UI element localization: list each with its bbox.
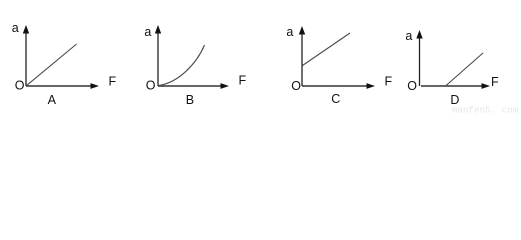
graph A: line through origin [27, 44, 77, 85]
graph D: y-axis [416, 30, 422, 86]
graph C: x-axis [302, 83, 375, 89]
svg-text:a: a [144, 25, 151, 39]
svg-text:a: a [286, 25, 293, 39]
svg-text:C: C [331, 92, 340, 106]
graph A: y-axis [23, 25, 29, 86]
svg-text:F: F [385, 75, 393, 89]
svg-text:O: O [15, 79, 25, 93]
graph C: y-axis [299, 26, 305, 86]
graph B: y-axis [155, 25, 161, 86]
graph B: x-axis [158, 83, 229, 89]
svg-text:B: B [186, 93, 194, 107]
svg-text:O: O [146, 79, 156, 93]
svg-text:O: O [291, 79, 301, 93]
svg-text:F: F [491, 75, 499, 89]
svg-text:A: A [48, 93, 57, 107]
svg-text:a: a [12, 21, 19, 35]
svg-text:F: F [239, 74, 247, 88]
svg-text:a: a [405, 29, 412, 43]
svg-text:manfen5. com: manfen5. com [452, 105, 519, 116]
svg-text:O: O [407, 79, 417, 93]
graph D: line with positive F-intercept [446, 53, 484, 86]
graph C: line with positive a-intercept [303, 33, 351, 66]
svg-text:F: F [109, 75, 117, 89]
graph D: x-axis [421, 83, 490, 89]
graph A: x-axis [26, 83, 99, 89]
graph B: concave-up curve from origin [159, 45, 205, 86]
